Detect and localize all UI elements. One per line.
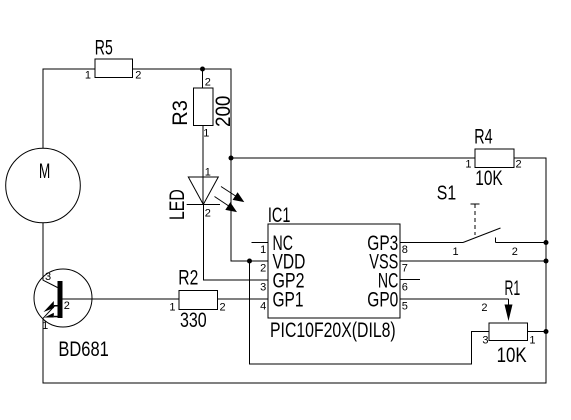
svg-text:R3: R3 [169, 100, 192, 126]
svg-text:6: 6 [402, 282, 408, 294]
svg-text:PIC10F20X(DIL8): PIC10F20X(DIL8) [270, 319, 396, 342]
svg-text:2: 2 [516, 159, 522, 171]
svg-text:8: 8 [402, 244, 408, 256]
svg-text:1: 1 [205, 167, 211, 179]
svg-text:200: 200 [212, 96, 235, 127]
svg-text:1: 1 [453, 246, 459, 258]
svg-text:10K: 10K [497, 344, 527, 367]
svg-text:LED: LED [166, 189, 189, 220]
svg-text:10K: 10K [475, 167, 502, 190]
svg-text:7: 7 [402, 263, 408, 275]
svg-text:2: 2 [64, 300, 70, 312]
svg-text:S1: S1 [437, 182, 456, 204]
svg-text:2: 2 [220, 301, 226, 313]
svg-text:2: 2 [481, 302, 487, 314]
svg-text:1: 1 [260, 244, 266, 256]
svg-text:M: M [39, 160, 50, 183]
svg-text:1: 1 [203, 128, 209, 140]
svg-text:R5: R5 [95, 37, 113, 60]
svg-text:BD681: BD681 [58, 338, 108, 361]
svg-text:2: 2 [205, 208, 211, 220]
svg-text:1: 1 [529, 334, 535, 346]
svg-text:R4: R4 [474, 125, 493, 148]
svg-text:1: 1 [42, 320, 48, 332]
svg-text:GP0: GP0 [367, 289, 398, 312]
svg-text:1: 1 [169, 301, 175, 313]
svg-text:2: 2 [205, 77, 211, 89]
svg-text:3: 3 [45, 271, 51, 283]
svg-text:1: 1 [85, 69, 91, 81]
svg-text:3: 3 [260, 282, 266, 294]
svg-text:3: 3 [482, 334, 488, 346]
svg-text:2: 2 [260, 263, 266, 275]
svg-text:R2: R2 [178, 267, 198, 290]
svg-text:2: 2 [135, 69, 141, 81]
svg-text:4: 4 [260, 301, 266, 313]
svg-text:330: 330 [180, 309, 207, 332]
svg-text:IC1: IC1 [268, 204, 291, 227]
svg-text:5: 5 [402, 301, 408, 313]
svg-text:2: 2 [512, 246, 518, 258]
svg-text:R1: R1 [505, 277, 521, 300]
svg-text:GP1: GP1 [273, 289, 304, 312]
svg-text:1: 1 [465, 159, 471, 171]
